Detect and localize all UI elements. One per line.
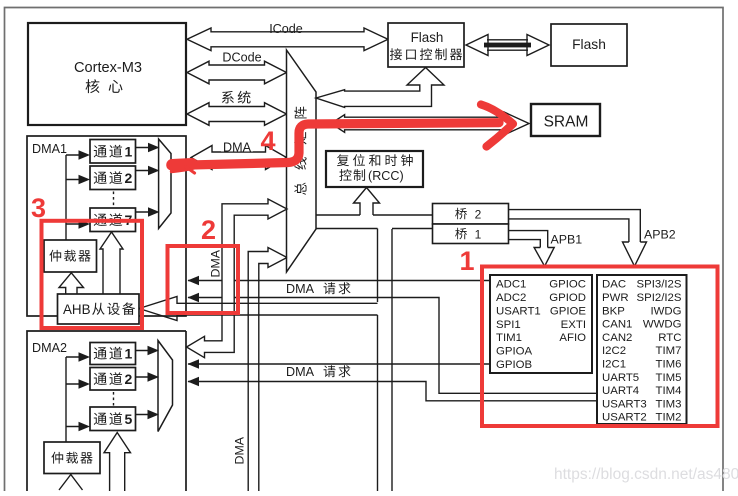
DMA2 channel 2 box: [90, 368, 136, 391]
svg-text:AHB: AHB: [63, 302, 91, 317]
svg-text:AFIO: AFIO: [559, 332, 586, 344]
red box 2: [168, 246, 239, 313]
DMA2 outer box: [27, 331, 186, 491]
svg-text:Flash: Flash: [411, 30, 444, 45]
svg-text:DMA: DMA: [209, 249, 223, 277]
svg-text:DMA: DMA: [223, 141, 252, 155]
svg-text:RTC: RTC: [658, 332, 681, 344]
svg-text:TIM5: TIM5: [656, 372, 682, 384]
DMA1 mux funnel: [159, 139, 171, 229]
label DMA request 1: [286, 282, 351, 296]
svg-text:(RCC): (RCC): [368, 169, 404, 183]
svg-text:DMA2: DMA2: [32, 341, 67, 355]
system bus arrow: [187, 91, 287, 126]
pipe from bus matrix to SRAM: [331, 112, 529, 135]
DMA request wire 1 top: [188, 280, 490, 282]
DMA2 mux funnel: [158, 341, 173, 432]
DMA1 channel 2 box: [90, 166, 136, 190]
ICode bus arrow: [187, 22, 388, 51]
Flash interface controller box: [388, 23, 464, 67]
svg-text:TIM7: TIM7: [656, 345, 682, 357]
svg-text:DCode: DCode: [222, 51, 261, 65]
svg-text:EXTI: EXTI: [561, 319, 586, 331]
svg-text:5: 5: [125, 411, 133, 427]
svg-text:SPI1: SPI1: [496, 319, 521, 331]
arrow into DMA2 channel 5 from below: [104, 433, 131, 492]
wire bridge1 to APB1 arrow: [509, 231, 548, 248]
svg-text:1: 1: [125, 144, 133, 160]
bridge 1 box: [433, 224, 509, 244]
svg-text:2: 2: [475, 207, 482, 221]
arrow into DMA2 arbiter from below: [59, 475, 83, 491]
red box 1: [482, 267, 718, 427]
RCC box: [326, 151, 423, 187]
svg-text:UART5: UART5: [602, 372, 639, 384]
svg-text:TIM6: TIM6: [656, 359, 682, 371]
SRAM box: [531, 104, 600, 136]
bridge 2 box: [433, 204, 509, 225]
APB2 down arrow head: [623, 242, 647, 266]
dashed line channels DMA2: [113, 392, 115, 406]
DMA1 channel feed wire: [66, 155, 80, 240]
svg-text:GPIOB: GPIOB: [496, 359, 532, 371]
bridge channel wires from bus matrix: [316, 215, 433, 229]
svg-text:CAN2: CAN2: [602, 332, 632, 344]
svg-text:PWR: PWR: [602, 292, 629, 304]
DMA1 outer box: [27, 136, 186, 316]
DMA2 channel feed wire: [66, 357, 80, 442]
svg-text:DMA: DMA: [233, 436, 247, 464]
svg-text:I2C1: I2C1: [602, 359, 626, 371]
red box 3: [42, 221, 143, 328]
label DMA request 2: [286, 365, 351, 379]
svg-text:TIM4: TIM4: [656, 385, 682, 397]
DMA1 arbiter box: [44, 240, 97, 272]
svg-text:4: 4: [260, 126, 275, 156]
pipe from bus matrix to Flash interface controller: [316, 68, 444, 108]
svg-text:3: 3: [31, 193, 46, 223]
svg-text:GPIOE: GPIOE: [550, 305, 586, 317]
svg-text:CAN1: CAN1: [602, 319, 632, 331]
svg-text:GPIOC: GPIOC: [549, 279, 586, 291]
svg-text:BKP: BKP: [602, 305, 625, 317]
svg-text:WWDG: WWDG: [643, 319, 682, 331]
red marker arrow stroke 4: [171, 105, 513, 174]
FLITF-Flash double arrow: [466, 35, 549, 56]
arrow AHB slave to arbiter: [59, 273, 84, 294]
svg-text:1: 1: [475, 227, 482, 241]
svg-text:2: 2: [201, 215, 216, 245]
vertical pipe from bridge channel down (T junction): [378, 229, 393, 492]
svg-text:TIM3: TIM3: [656, 398, 682, 410]
DMA2 channel 1 box: [90, 343, 136, 365]
svg-text:1: 1: [125, 346, 133, 362]
svg-text:SPI3/I2S: SPI3/I2S: [637, 279, 682, 291]
DMA2 arbiter box: [44, 442, 100, 474]
svg-text:APB1: APB1: [551, 233, 583, 247]
svg-text:USART2: USART2: [602, 412, 647, 424]
label DMA vertical bottom: [233, 436, 247, 464]
DMA1 channel 7 box: [90, 208, 136, 232]
APB1 down arrow head: [534, 248, 554, 267]
svg-text:SPI2/I2S: SPI2/I2S: [637, 292, 682, 304]
svg-text:Flash: Flash: [572, 37, 606, 52]
Cortex-M3 core box: [28, 23, 186, 125]
svg-text:IWDG: IWDG: [650, 305, 681, 317]
svg-text:ICode: ICode: [269, 22, 303, 36]
DMA bus arrow from DMA1 to bus matrix: [191, 141, 287, 170]
svg-text:DMA: DMA: [286, 282, 315, 296]
dashed line channels DMA1: [113, 192, 115, 207]
RCC up arrow: [354, 188, 380, 216]
wire bridge2 to APB2 arrow: [509, 210, 641, 242]
svg-text:SRAM: SRAM: [544, 114, 589, 131]
DCode bus arrow: [187, 51, 287, 84]
svg-text:USART3: USART3: [602, 398, 647, 410]
DMA request wire 1 bottom: [188, 298, 597, 394]
svg-text:GPIOA: GPIOA: [496, 346, 532, 358]
APB2 peripherals box: [490, 275, 592, 373]
DMA1 AHB slave box: [58, 294, 140, 324]
svg-text:DMA1: DMA1: [32, 142, 67, 156]
arrow AHB slave to channel 7: [100, 232, 123, 294]
label DMA vertical near box2: [209, 249, 223, 277]
DMA2 channel 5 box: [90, 407, 136, 431]
svg-text:DMA: DMA: [286, 365, 315, 379]
pipe from bottom up into bus matrix: [248, 248, 287, 492]
svg-text:ADC2: ADC2: [496, 292, 526, 304]
bus matrix: [287, 50, 317, 272]
svg-text:APB2: APB2: [644, 228, 676, 242]
svg-text:ADC1: ADC1: [496, 279, 526, 291]
svg-text:USART1: USART1: [496, 305, 541, 317]
DMA request wire 2 top: [188, 363, 490, 365]
svg-text:DAC: DAC: [602, 279, 626, 291]
svg-text:UART4: UART4: [602, 385, 639, 397]
APB1 peripherals box: [597, 275, 687, 424]
Flash box: [551, 24, 627, 66]
pipe from AHB slave to vertical pipe: [139, 297, 378, 321]
svg-text:2: 2: [125, 170, 133, 186]
svg-text:I2C2: I2C2: [602, 345, 626, 357]
DMA1 channel 1 box: [90, 140, 136, 164]
svg-text:1: 1: [459, 246, 474, 276]
DMA1 channel output arrows: [136, 148, 150, 213]
svg-text:GPIOD: GPIOD: [549, 292, 586, 304]
DMA2 channel output arrows: [136, 351, 149, 415]
svg-text:Cortex-M3: Cortex-M3: [74, 60, 142, 76]
svg-text:2: 2: [125, 371, 133, 387]
DMA request wire 2 bottom: [188, 382, 597, 401]
svg-text:https://blog.csdn.net/as4800: https://blog.csdn.net/as4800: [554, 466, 738, 483]
svg-text:TIM1: TIM1: [496, 332, 522, 344]
svg-text:TIM2: TIM2: [656, 412, 682, 424]
pipe bus matrix to DMA2 (L-shaped): [187, 199, 288, 358]
